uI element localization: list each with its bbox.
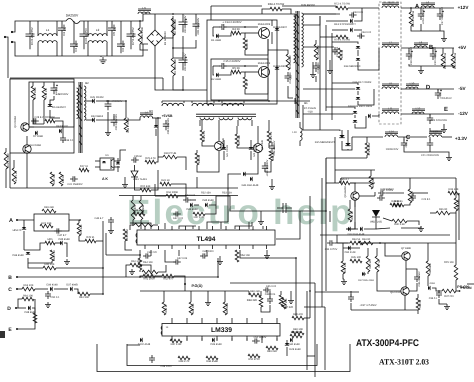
capacitor C31 1N/400V xyxy=(70,176,78,182)
wire 12v caps3 xyxy=(439,8,441,10)
wire sec tap1 xyxy=(303,13,340,15)
wire tl pin bus7 xyxy=(235,226,252,229)
wire q6 emitter xyxy=(404,295,406,310)
wire route vert 310 xyxy=(309,196,311,318)
wire q4 wires xyxy=(26,136,28,145)
svg-text:R6 2.7K: R6 2.7K xyxy=(246,39,249,49)
svg-text:L8: L8 xyxy=(419,41,423,45)
svg-text:R34 640: R34 640 xyxy=(457,199,460,209)
wire sec1b xyxy=(348,7,379,9)
wire LM339 bottom pin 7 xyxy=(261,336,263,340)
svg-text:B2: B2 xyxy=(85,81,89,85)
wire d9 xyxy=(117,158,119,162)
wire drv10 xyxy=(197,151,219,172)
svg-text:R32 43A: R32 43A xyxy=(201,192,211,195)
wire b2 sec5 xyxy=(96,118,140,120)
resistor R32b 91 xyxy=(390,203,401,207)
resistor R75 15 xyxy=(338,48,342,60)
svg-text:D2 4148: D2 4148 xyxy=(211,78,221,81)
wire d16 out xyxy=(358,89,374,105)
resistor R62 10K xyxy=(22,287,35,291)
wire standby cell xyxy=(32,82,34,86)
inductor L4b core bar xyxy=(140,113,153,114)
svg-text:R36 10K: R36 10K xyxy=(369,259,372,269)
wire d29 wires2 xyxy=(286,347,288,356)
wire tl-net3 xyxy=(171,184,186,196)
wire lm339 riser2 xyxy=(186,338,188,341)
svg-text:+C16 470/16V: +C16 470/16V xyxy=(422,8,425,25)
resistor R10 A4/2W xyxy=(286,54,290,70)
wire opto wires xyxy=(95,160,100,162)
svg-text:L6: L6 xyxy=(426,1,430,5)
svg-text:-018: -018 xyxy=(307,111,313,114)
capacitor C20 1000U/10V xyxy=(401,139,407,149)
wire drv11 xyxy=(265,161,271,172)
capacitor C34 0.01 xyxy=(357,33,365,38)
diode D25 FR302 xyxy=(92,99,94,104)
fuse F1 SA250V xyxy=(66,19,80,24)
standby block outline xyxy=(10,79,74,153)
svg-text:D37 D35 4148: D37 D35 4148 xyxy=(358,279,374,282)
wire a-net10 xyxy=(56,267,103,269)
wire L2 leads xyxy=(87,21,89,36)
resistor R63b 1000 xyxy=(142,270,158,274)
wire c9 bottom xyxy=(182,76,184,90)
svg-text:+C23 220U/16V: +C23 220U/16V xyxy=(429,119,447,122)
wire bulk top rail xyxy=(155,13,207,15)
wire mag r72 stub xyxy=(366,137,368,143)
resistor R48 22K xyxy=(249,293,261,297)
svg-text:R2 100K/2W: R2 100K/2W xyxy=(174,19,177,35)
wire c34p lead xyxy=(335,242,348,244)
junction node 11 xyxy=(432,47,434,49)
diode D14 SBR3040 a xyxy=(356,46,360,48)
capacitor C48 220 xyxy=(143,253,151,258)
resistor R64b 10K xyxy=(138,258,142,270)
wire drv1 xyxy=(201,120,203,130)
capacitor C33 0.01 xyxy=(349,12,357,17)
ground c46 xyxy=(108,228,114,234)
svg-text:Q5 C945: Q5 C945 xyxy=(261,139,264,150)
wire below tl12 xyxy=(174,276,185,284)
transformer B3 core xyxy=(296,11,299,118)
optocoupler U1 led xyxy=(102,161,106,163)
wire TL494 top pin 2 xyxy=(158,226,160,230)
PG dot xyxy=(184,283,186,285)
svg-text:R49 22K: R49 22K xyxy=(267,350,277,353)
svg-text:R63 10K: R63 10K xyxy=(79,296,89,299)
wire tl pin bus9 xyxy=(262,226,264,229)
wire latch21 xyxy=(456,290,459,292)
wire gnd snubber xyxy=(329,60,331,68)
wire TL494 bottom pin 4 xyxy=(185,245,187,249)
svg-text:R47 1.2K: R47 1.2K xyxy=(194,216,205,219)
capacitor C46m MBC50V xyxy=(269,142,275,152)
wire 3v3 sense xyxy=(326,157,367,159)
resistor R54 10K xyxy=(235,250,239,262)
wire standby bottom xyxy=(5,169,7,188)
resistor R13b 2.7K xyxy=(267,131,271,143)
wire bulk bottom rail ext xyxy=(162,78,164,90)
wire route long right xyxy=(325,158,327,211)
diode D23 4148 xyxy=(348,227,350,231)
wire standby cell4 xyxy=(33,100,44,124)
wire mid out xyxy=(268,50,288,54)
diode D39 4148 xyxy=(212,338,214,342)
wire 12v caps6 xyxy=(439,24,441,31)
svg-text:R49 2.7K: R49 2.7K xyxy=(179,360,190,363)
svg-text:C42 0.69: C42 0.69 xyxy=(177,257,188,260)
resistor R78 470/0.5W xyxy=(451,54,455,68)
capacitor C51 9240V xyxy=(252,338,260,343)
wire r28 lead2 xyxy=(177,157,186,170)
resistor R33h 5.6K xyxy=(392,219,407,223)
wire tl pin bus6 xyxy=(220,222,222,229)
svg-text:-5V: -5V xyxy=(458,86,466,91)
wire route h307 xyxy=(304,306,325,308)
svg-text:R38 18: R38 18 xyxy=(419,299,422,308)
svg-text:R47 1.8K: R47 1.8K xyxy=(171,343,182,346)
svg-text:R54 10K: R54 10K xyxy=(240,254,250,257)
svg-text:R74 4.7/0.5W: R74 4.7/0.5W xyxy=(334,39,350,42)
svg-text:R64 10K: R64 10K xyxy=(143,261,153,264)
svg-text:R10 A4/2W: R10 A4/2W xyxy=(289,55,292,69)
wire sec left bus1 xyxy=(319,16,321,130)
resistor R30v 90 xyxy=(348,209,352,222)
capacitor C46b 0.01 xyxy=(263,287,271,292)
inductor L9 core bar xyxy=(382,84,399,85)
resistor R84 470/0.5W xyxy=(409,12,413,26)
diode D13 STPR1020CT b xyxy=(350,28,352,32)
svg-text:C47 8.7: C47 8.7 xyxy=(58,234,68,237)
wire -12v cap2 xyxy=(430,128,444,131)
svg-text:C5 2200: C5 2200 xyxy=(112,24,116,35)
svg-text:C34 0.01: C34 0.01 xyxy=(361,31,372,34)
wire xfmr top lead xyxy=(294,14,296,18)
capacitor C47 8.7 xyxy=(54,228,62,233)
svg-text:C46 4.7: C46 4.7 xyxy=(95,217,105,220)
transformer B2 secondary xyxy=(84,86,86,120)
wire b4 stub2 xyxy=(218,120,220,126)
wire opto wires4 xyxy=(114,166,120,168)
resistor R15 560 xyxy=(45,119,55,123)
wire LM339 top pin 7 xyxy=(261,318,263,324)
wire drv5 xyxy=(237,146,253,148)
resistor R40 10K xyxy=(43,266,56,270)
svg-text:C34 0.1: C34 0.1 xyxy=(65,139,75,142)
junction node 16 xyxy=(218,100,220,102)
ground above lm339 right xyxy=(288,298,294,304)
svg-text:R02 43K: R02 43K xyxy=(141,185,151,188)
resistor R43 5.1K xyxy=(50,250,54,261)
svg-text:D40 4148: D40 4148 xyxy=(288,343,300,346)
wire B riser xyxy=(217,258,219,277)
svg-text:D: D xyxy=(7,306,11,312)
capacitor C14 2.2U/50V xyxy=(219,24,227,30)
wire prot row1 xyxy=(325,183,327,196)
wire fb gnd lead xyxy=(260,211,262,219)
diode D45 4148 xyxy=(205,203,207,207)
capacitor C40 10U/50V xyxy=(262,162,268,172)
wire zd4 xyxy=(23,220,25,227)
capacitor C5 2200p xyxy=(108,21,116,37)
svg-text:R28 PTUB: R28 PTUB xyxy=(164,152,177,155)
wire TL494 bottom pin 6 xyxy=(212,245,214,249)
ground -12V xyxy=(441,127,447,133)
node C dot xyxy=(16,288,18,290)
inductor L10 core bar xyxy=(406,84,419,85)
wire route h283 xyxy=(230,282,315,284)
svg-text:+5V: +5V xyxy=(458,45,467,50)
zener ZD4 20 xyxy=(22,227,26,229)
capacitor C22 220U/16V xyxy=(435,89,441,99)
wire LM339 bottom pin 4 xyxy=(216,336,218,340)
svg-text:R32 91: R32 91 xyxy=(394,200,403,203)
wire sec tap2 xyxy=(303,16,320,25)
inductor L6 xyxy=(421,6,434,8)
svg-text:C36 0.1: C36 0.1 xyxy=(429,297,438,300)
wire TL494 top pin 5 xyxy=(198,226,200,230)
wire cluster wires3 xyxy=(261,305,270,312)
svg-text:Q7 A986: Q7 A986 xyxy=(401,247,411,250)
svg-text:+12V: +12V xyxy=(458,5,470,10)
wire TL494 bottom pin 1 xyxy=(144,245,146,249)
svg-text:C42 0.01: C42 0.01 xyxy=(173,217,184,220)
wire 12v caps4 xyxy=(411,26,444,36)
wire tl-top1 xyxy=(144,213,146,215)
svg-text:R33 43A: R33 43A xyxy=(222,192,232,195)
wire d40s leads xyxy=(155,118,157,125)
wire drv emitters to rail xyxy=(196,177,198,188)
ground r23 xyxy=(341,279,347,285)
capacitor C17 2200U/16V xyxy=(437,10,443,20)
svg-text:WB1 TL431: WB1 TL431 xyxy=(133,178,147,181)
resistor R4 39 xyxy=(231,31,241,35)
wire magamp w4 xyxy=(105,233,107,255)
wire lm339 riser8 xyxy=(276,338,278,341)
wire latch27 xyxy=(350,303,352,310)
capacitor C2 2200p xyxy=(58,21,66,37)
wire 3v3 caps4 xyxy=(429,149,431,152)
resistor R2 100K/2W xyxy=(171,18,175,36)
diode D36 4148 xyxy=(50,287,52,291)
ground EMI filter xyxy=(99,57,106,64)
wire bottom box outer xyxy=(97,344,350,372)
wire d15 cath xyxy=(342,137,352,150)
diode D38 4148 xyxy=(28,306,30,310)
wire drv3 xyxy=(218,126,220,141)
wire 5vsb lead xyxy=(158,117,161,119)
junction node 5 xyxy=(325,210,327,212)
wire c6 top xyxy=(120,21,122,37)
svg-text:D16 D17 FR302: D16 D17 FR302 xyxy=(353,81,372,84)
svg-text:R62 500B: R62 500B xyxy=(166,191,178,194)
svg-text:R57 470: R57 470 xyxy=(134,204,137,215)
svg-text:220U/16V: 220U/16V xyxy=(440,97,452,100)
wire below tl9 xyxy=(142,265,151,272)
wire d3 wire xyxy=(271,20,273,26)
wire TL494 bottom pin 2 xyxy=(158,245,160,249)
wire primary common rail xyxy=(10,187,238,189)
wire latch4 xyxy=(376,248,378,256)
resistor R10b 1.2K xyxy=(12,168,16,184)
inductor L11 xyxy=(382,112,399,114)
svg-text:R40 10K: R40 10K xyxy=(44,263,54,266)
capacitor C26v 8.1 xyxy=(410,193,416,201)
diode D34p 4148 xyxy=(348,246,350,250)
wire a-net8 xyxy=(28,258,52,263)
diode D13 STPR1020CT a xyxy=(350,19,352,23)
svg-text:R1 680K/1.2W: R1 680K/1.2W xyxy=(141,27,144,45)
svg-text:R7 1: R7 1 xyxy=(246,80,249,86)
wire d20 out xyxy=(372,114,379,116)
svg-text:R25 91: R25 91 xyxy=(86,236,95,239)
svg-text:C13 2200: C13 2200 xyxy=(317,62,320,74)
svg-text:L1: L1 xyxy=(46,28,50,32)
junction node 12 xyxy=(139,276,141,278)
capacitor C37q 4.7U/50V xyxy=(348,294,354,302)
svg-text:R18 1K: R18 1K xyxy=(62,174,65,183)
resistor R68 4.7/0.5W xyxy=(270,7,282,11)
wire 3v3 sense v xyxy=(366,155,368,158)
wire fb long3 xyxy=(325,158,327,211)
wire r36h lead2 xyxy=(430,212,436,214)
svg-text:R46 990B: R46 990B xyxy=(226,303,229,315)
wire b2 sec8 xyxy=(152,117,158,119)
wire d40s leads2 xyxy=(155,129,157,136)
capacitor C46 4.7 xyxy=(108,217,114,225)
wire magamp w7 xyxy=(130,225,134,230)
resistor R65 10K xyxy=(33,313,37,323)
wire lm net1 xyxy=(163,291,165,302)
svg-text:D15 MBR2045CT: D15 MBR2045CT xyxy=(315,141,336,144)
wire route v307 xyxy=(306,291,308,370)
wire r28 lead xyxy=(158,156,163,158)
wire drv2 xyxy=(202,142,214,146)
wire bridge right out xyxy=(163,16,173,38)
svg-text:+C37 4.7U/50V: +C37 4.7U/50V xyxy=(359,304,376,307)
resistor R61 500B xyxy=(166,194,178,198)
svg-text:D41 D42 4148: D41 D42 4148 xyxy=(242,184,259,187)
wire sec left bus2 xyxy=(325,25,327,111)
wire b2 gnd xyxy=(107,112,109,130)
svg-text:SA250V: SA250V xyxy=(66,14,79,18)
wire tl-net6 xyxy=(205,205,216,214)
wire below tl10 xyxy=(140,276,143,277)
wire route h356 xyxy=(307,355,315,357)
svg-text:C35 HI: C35 HI xyxy=(134,155,142,158)
svg-text:C19 2200U/16V: C19 2200U/16V xyxy=(434,47,437,65)
capacitor C9 3300/200V xyxy=(179,52,188,70)
inductor L14 xyxy=(385,135,398,137)
wire r30v top2 xyxy=(349,200,351,209)
capacitor C34p 1070V xyxy=(327,240,335,246)
wire right link3 xyxy=(295,258,297,290)
wire tl pin bus4 xyxy=(192,226,194,229)
svg-text:C46 0.01: C46 0.01 xyxy=(266,285,277,288)
svg-text:C21 2200U/10V: C21 2200U/10V xyxy=(421,154,439,157)
inductor L7 core bar xyxy=(382,43,399,44)
wire drv15 xyxy=(271,179,273,184)
wire standby cell2 xyxy=(43,82,45,86)
wire TL494 bottom pin 10 xyxy=(266,245,268,249)
wire drv6 xyxy=(257,126,259,143)
wire d18 out xyxy=(355,116,366,128)
junction node 8 xyxy=(157,117,159,119)
wire sec ct xyxy=(312,62,314,72)
diode D6 HER507 xyxy=(48,104,53,106)
wire drv emitters to rail2 xyxy=(227,188,229,190)
wire L2 leads3 xyxy=(87,43,89,56)
svg-text:D41 FR302: D41 FR302 xyxy=(226,144,229,157)
wire EMI gnd stub xyxy=(100,56,102,57)
resistor R47c 1.8K xyxy=(170,339,182,343)
wire opto wires2 xyxy=(114,160,120,162)
resistor R34v 640 xyxy=(454,198,458,211)
wire prot5 xyxy=(354,200,356,210)
wire cluster wires5 xyxy=(290,291,292,298)
wire sec down xyxy=(302,105,304,130)
diode D41f FR302 xyxy=(222,147,226,149)
wire pre-tl1 xyxy=(102,221,104,241)
wire d14 stub2 xyxy=(357,50,359,56)
wire -12V rail xyxy=(401,113,454,115)
wire EMI top rail xyxy=(24,20,66,22)
wire d14 stub1 xyxy=(332,42,358,44)
ground ps-on2 xyxy=(444,304,450,310)
svg-text:R72 15/2W: R72 15/2W xyxy=(368,142,371,155)
capacitor C3 2200p xyxy=(70,37,78,53)
wire q2 cell2 xyxy=(224,65,258,67)
wire C lead3 xyxy=(54,288,68,290)
wire bottom route1 xyxy=(102,268,104,294)
wire cluster wires4 xyxy=(280,291,282,295)
wire route h 318 xyxy=(304,317,310,319)
resistor R5 39 xyxy=(231,70,241,74)
svg-text:ATX-300P4-PFC: ATX-300P4-PFC xyxy=(356,338,419,349)
standby snubber box xyxy=(29,82,74,127)
resistor R49c 22K xyxy=(266,346,278,350)
junction node 0 xyxy=(102,267,104,269)
wire standby net3 xyxy=(156,118,158,162)
resistor R58 500 xyxy=(139,200,143,220)
svg-text:C: C xyxy=(8,287,12,293)
wire prot4 xyxy=(374,192,376,196)
wire b4 stub1 xyxy=(199,120,201,126)
svg-text:D23 D24 4148: D23 D24 4148 xyxy=(348,233,365,236)
driver transformer B3 lower winding 1 xyxy=(200,118,214,120)
wire prot left drop xyxy=(340,178,342,184)
wire lm339 riser4 xyxy=(216,338,218,341)
ground snubber xyxy=(327,68,333,74)
wire prot6 xyxy=(346,210,355,229)
wire snubber xyxy=(315,40,317,44)
resistor R35b 56 xyxy=(350,241,362,245)
wire latch12 xyxy=(427,256,429,261)
wire lm339 riser7 xyxy=(261,338,263,343)
svg-text:+5VSB: +5VSB xyxy=(162,114,173,118)
svg-text:L7: L7 xyxy=(389,41,393,45)
capacitor C37b 50/50V xyxy=(378,190,386,195)
svg-text:-12V: -12V xyxy=(458,111,469,116)
capacitor C38p 4.7U/50V xyxy=(414,274,420,282)
wire upper winding stubs3 xyxy=(191,101,193,103)
inductor L12 xyxy=(412,112,424,114)
transformer B2 core xyxy=(79,82,82,153)
resistor R36x 10K xyxy=(366,256,370,272)
wire latch25 xyxy=(417,310,419,314)
inductor L8 xyxy=(414,46,427,48)
